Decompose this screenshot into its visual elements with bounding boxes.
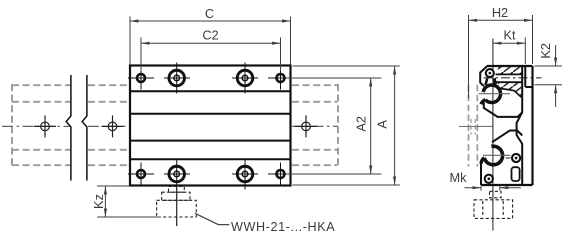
svg-text:C2: C2 <box>202 28 218 43</box>
svg-text:Kt: Kt <box>503 28 516 43</box>
svg-text:A: A <box>375 120 390 129</box>
svg-text:H2: H2 <box>492 5 508 20</box>
svg-text:Kz: Kz <box>91 194 106 209</box>
svg-text:WWH-21-...-HKA: WWH-21-...-HKA <box>231 220 335 234</box>
svg-text:C: C <box>205 6 214 21</box>
svg-text:Mk: Mk <box>449 170 467 185</box>
svg-text:A2: A2 <box>354 116 369 132</box>
svg-text:K2: K2 <box>538 43 553 59</box>
